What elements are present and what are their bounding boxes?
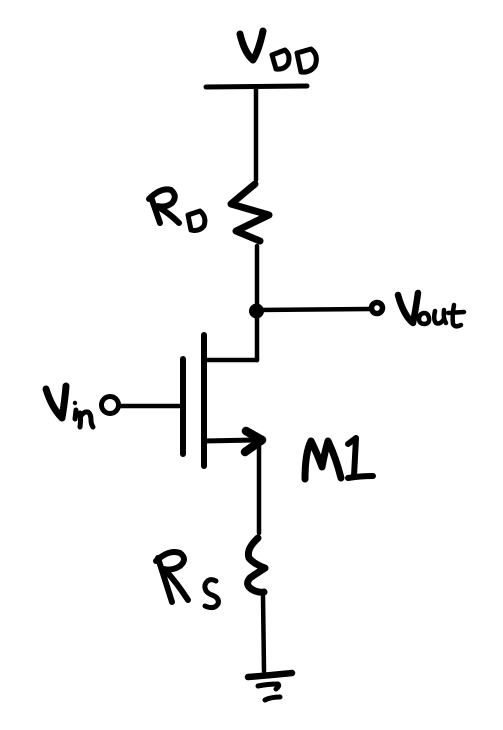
resistor RD label bbox=[149, 189, 205, 230]
resistor RS bbox=[248, 538, 265, 592]
terminal Vin open circle bbox=[102, 397, 119, 414]
wire source to RS bbox=[257, 443, 262, 533]
terminal Vout open circle bbox=[372, 303, 383, 314]
wire source with arrow bbox=[204, 440, 256, 441]
resistor RD bbox=[231, 184, 269, 241]
wire node to drain bbox=[255, 311, 260, 360]
arrowhead source bbox=[245, 431, 262, 452]
wire drain horizontal bbox=[204, 358, 257, 363]
transistor M1 label bbox=[305, 438, 373, 479]
transistor M1 gate bar bbox=[180, 359, 186, 454]
node Vin label bbox=[46, 386, 93, 427]
transistor M1 channel bar bbox=[201, 335, 207, 466]
wire RD to node bbox=[255, 246, 260, 310]
resistor RS label bbox=[156, 552, 218, 608]
node Vout label bbox=[398, 293, 464, 326]
ground bbox=[248, 673, 292, 700]
wire RS to ground bbox=[263, 596, 264, 671]
wire VDD to RD bbox=[254, 88, 259, 180]
power rail VDD bbox=[206, 86, 307, 87]
wire node to Vout terminal bbox=[257, 309, 369, 310]
node VDD label bbox=[240, 31, 316, 72]
wire gate bbox=[120, 404, 183, 409]
node junction dot bbox=[249, 304, 264, 319]
